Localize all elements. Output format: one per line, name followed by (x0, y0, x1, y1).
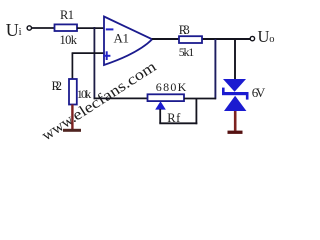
node output terminal Uo (250, 36, 254, 40)
ground below zeners (228, 111, 243, 134)
svg-text:o: o (269, 34, 274, 45)
potentiometer wiper arrow Rf (155, 101, 181, 125)
wire noninverting input horizontal (72, 52, 104, 54)
resistor R1 (55, 8, 78, 47)
wire feedback vertical from inverting input node down (93, 27, 95, 99)
wire 680K right lead (184, 98, 216, 100)
svg-text:R3: R3 (179, 23, 190, 37)
wire zener stem from output wire (234, 39, 236, 80)
wire wiper return bottom (159, 122, 197, 124)
svg-text:i: i (19, 27, 22, 38)
ground below R2 (63, 105, 81, 132)
svg-text:6V: 6V (252, 85, 266, 100)
zener diode D2 lower (224, 96, 246, 111)
potentiometer 680K body (148, 80, 187, 101)
resistor R2 (52, 79, 92, 105)
label Uo (258, 27, 275, 46)
label Ui (6, 20, 22, 40)
wire R2 top lead (71, 53, 73, 79)
svg-text:U: U (6, 20, 19, 40)
zener bar (222, 88, 249, 100)
svg-text:10k: 10k (77, 87, 92, 101)
svg-text:U: U (258, 27, 270, 46)
wire wiper return vertical (195, 99, 197, 125)
wire input to R1 (32, 27, 55, 29)
wire feedback vertical from output node (214, 39, 216, 99)
svg-text:5k1: 5k1 (179, 45, 195, 59)
svg-text:A1: A1 (114, 30, 130, 45)
svg-text:R1: R1 (60, 8, 74, 22)
zener diode D1 upper (223, 79, 246, 92)
svg-text:680K: 680K (156, 80, 187, 94)
wire op-amp output (152, 38, 251, 40)
wire 680K left lead from node (94, 97, 148, 99)
svg-text:10k: 10k (60, 33, 78, 47)
wire R1 to op-amp inverting input (77, 27, 104, 29)
op-amp A1 (103, 17, 152, 66)
svg-text:R2: R2 (52, 79, 63, 93)
resistor R3 (179, 23, 202, 59)
node Ui input terminal (27, 26, 31, 30)
